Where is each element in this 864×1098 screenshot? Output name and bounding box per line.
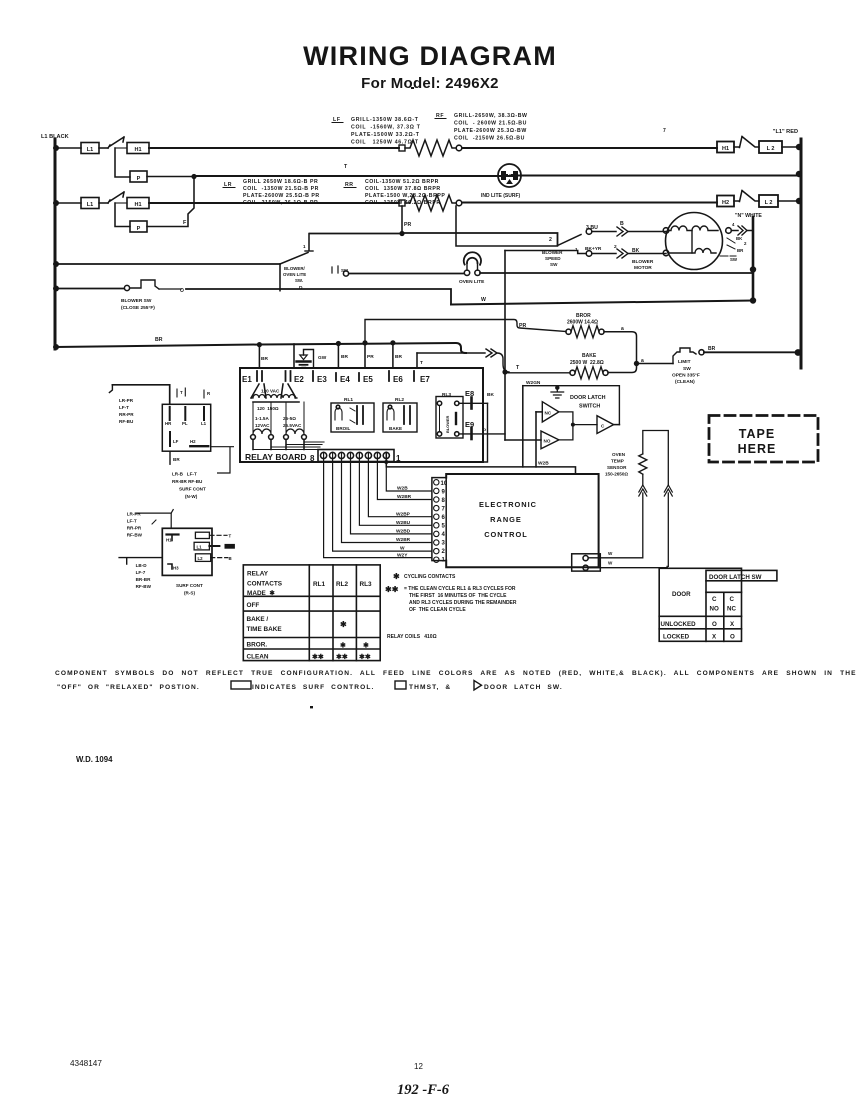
svg-text:RL1: RL1	[344, 397, 353, 403]
svg-text:LF-T: LF-T	[119, 405, 129, 410]
left supply bus L1 BLACK	[41, 134, 69, 349]
svg-text:COIL -1560W, 37.3Ω T: COIL -1560W, 37.3Ω T	[351, 125, 421, 131]
surface control 2 feed wire	[136, 513, 172, 528]
relay box H1 (row2 left)	[127, 198, 149, 209]
svg-text:BR: BR	[708, 346, 716, 352]
svg-text:SW.: SW.	[295, 278, 303, 283]
ERC terminal block	[432, 478, 448, 564]
wire blower thermal switch line	[55, 288, 124, 290]
svg-text:O: O	[730, 633, 735, 640]
svg-text:For Model: 2496X2: For Model: 2496X2	[361, 75, 499, 92]
wire sensor bottom lead	[642, 474, 644, 485]
svg-text:BLOWER: BLOWER	[632, 259, 654, 265]
svg-text:OVEN: OVEN	[612, 452, 626, 457]
wire E6 drop	[392, 343, 394, 368]
note symbol: thmst box	[395, 681, 406, 689]
relay box L2 (row1 right)	[759, 141, 782, 153]
blower thermal switch CLOSE 255F	[121, 280, 184, 311]
wire oven lite line	[349, 270, 753, 274]
secondary coil 26.5VAC	[284, 402, 307, 450]
wire P drop row1	[115, 148, 130, 177]
relay box H1 (row1 left)	[127, 143, 149, 154]
svg-text:L1 BLACK: L1 BLACK	[41, 134, 69, 140]
svg-text:RR-BR RF-BU: RR-BR RF-BU	[172, 479, 203, 484]
svg-text:= THE CLEAN CYCLE RL1 & RL3 CY: = THE CLEAN CYCLE RL1 & RL3 CYCLES FOR	[404, 586, 516, 592]
svg-text:L 2: L 2	[765, 200, 773, 206]
wire	[99, 202, 108, 204]
note symbol: door latch triangle	[474, 681, 482, 691]
load list LF	[332, 117, 421, 146]
svg-text:10: 10	[441, 481, 448, 487]
svg-text:(R-S): (R-S)	[184, 591, 195, 596]
svg-text:LF-T: LF-T	[127, 519, 137, 524]
svg-text:✱✱: ✱✱	[385, 585, 399, 594]
svg-text:COIL-1350W 51.2Ω BRPR: COIL-1350W 51.2Ω BRPR	[365, 179, 439, 185]
node P junction	[191, 174, 196, 179]
svg-text:W2BD: W2BD	[396, 529, 411, 535]
svg-text:HERE: HERE	[738, 442, 777, 456]
svg-text:DOOR: DOOR	[672, 591, 691, 598]
resistor bake element	[570, 370, 575, 375]
svg-text:P: P	[137, 176, 141, 182]
svg-text:✱✱: ✱✱	[336, 653, 348, 661]
surface list labels 2	[127, 512, 143, 538]
svg-text:RELAY COILS 410Ω: RELAY COILS 410Ω	[387, 634, 437, 640]
svg-text:BROR.: BROR.	[247, 642, 268, 649]
svg-text:GRILL 2650W 18.6Ω-B PR: GRILL 2650W 18.6Ω-B PR	[243, 179, 318, 185]
electronic range control box	[446, 474, 598, 567]
wire surf cont 1 to label	[211, 447, 234, 473]
svg-text:B: B	[620, 221, 624, 227]
surf cont 2 caption	[176, 583, 203, 596]
svg-text:L 2: L 2	[767, 146, 775, 152]
node	[399, 231, 404, 236]
svg-text:LR-PR: LR-PR	[127, 512, 142, 517]
svg-text:DOOR LATCH SW: DOOR LATCH SW	[709, 574, 762, 581]
wire row1 right	[462, 147, 717, 149]
wire P junction drop with jog to P2	[147, 177, 194, 227]
wire E5 riser and broil feed	[365, 320, 566, 343]
svg-text:1: 1	[303, 244, 306, 249]
title WIRING DIAGRAM	[303, 41, 557, 92]
svg-text:LF: LF	[173, 439, 179, 444]
surface control box 1	[162, 388, 211, 451]
svg-text:AND RL3 CYCLES DURING THE REMA: AND RL3 CYCLES DURING THE REMAINDER	[409, 600, 517, 606]
svg-text:5: 5	[442, 524, 446, 530]
wire E7 drop	[416, 353, 418, 368]
svg-text:2: 2	[744, 241, 747, 246]
svg-text:NO: NO	[544, 439, 551, 444]
wire W2GN riser	[522, 386, 524, 467]
svg-text:PR: PR	[367, 354, 374, 360]
svg-text:RANGE: RANGE	[490, 515, 522, 524]
relay contacts table	[243, 565, 380, 661]
svg-text:C: C	[712, 596, 717, 603]
mid-right neutral bus N WHITE	[735, 213, 762, 302]
svg-text:GRILL-2650W, 38.3Ω-BW: GRILL-2650W, 38.3Ω-BW	[454, 113, 528, 119]
svg-text:TEMP: TEMP	[611, 459, 624, 464]
switch (row1 right)	[734, 137, 759, 148]
svg-text:L1: L1	[87, 147, 93, 153]
svg-text:COIL - 2600W 21.5Ω-BU: COIL - 2600W 21.5Ω-BU	[454, 121, 527, 127]
svg-text:BAKE: BAKE	[582, 353, 597, 359]
wire speed sw low stub to RL3 feed vertical	[505, 251, 586, 254]
surface control box 2	[162, 528, 235, 575]
svg-text:✱: ✱	[393, 572, 400, 581]
load list LR	[223, 179, 320, 206]
surface cont 1 destination labels	[172, 472, 206, 500]
svg-text:L1: L1	[197, 545, 203, 550]
svg-text:LIMIT: LIMIT	[678, 359, 691, 365]
wire ERC bottom to door latch table	[588, 567, 667, 570]
svg-text:BLOWER SW: BLOWER SW	[121, 298, 152, 304]
wire bake to junction	[608, 364, 637, 373]
svg-text:COMPONENT SYMBOLS DO NOT REFLE: COMPONENT SYMBOLS DO NOT REFLECT TRUE CO…	[55, 670, 857, 677]
svg-text:L1: L1	[201, 421, 207, 426]
svg-text:COIL 1350W 37.8Ω BRPR: COIL 1350W 37.8Ω BRPR	[365, 186, 441, 192]
connector arrows	[639, 485, 647, 496]
svg-text:E4: E4	[340, 375, 350, 384]
tick	[152, 520, 156, 524]
svg-text:O: O	[712, 621, 717, 628]
svg-text:NC: NC	[727, 606, 736, 613]
svg-text:RL2: RL2	[336, 581, 349, 588]
wire E8 riser down to ERC feed	[420, 403, 488, 462]
svg-text:6: 6	[442, 515, 446, 521]
svg-text:E8: E8	[465, 389, 474, 398]
svg-text:BK: BK	[487, 392, 494, 398]
svg-text:H1: H1	[134, 202, 141, 208]
svg-text:"OFF" OR "RELAXED" POSTION.: "OFF" OR "RELAXED" POSTION.	[57, 684, 200, 691]
svg-text:SW: SW	[730, 257, 738, 262]
relay box P (row2)	[130, 221, 147, 232]
wire surf 2 left stub	[119, 558, 162, 564]
svg-text:T: T	[229, 534, 232, 539]
svg-text:4: 4	[442, 532, 446, 538]
svg-text:W2BP: W2BP	[396, 512, 411, 518]
svg-text:W: W	[608, 551, 613, 556]
svg-text:SENSOR: SENSOR	[607, 465, 627, 470]
svg-text:BR: BR	[737, 248, 744, 253]
svg-text:BR: BR	[155, 337, 163, 343]
svg-text:2500 W 22.8Ω: 2500 W 22.8Ω	[570, 360, 604, 366]
svg-text:"L1" RED: "L1" RED	[773, 129, 798, 135]
oven temp sensor resistor	[639, 454, 647, 474]
note symbol: surf control box	[231, 681, 251, 689]
svg-text:3: 3	[442, 541, 446, 547]
svg-text:TAPE: TAPE	[739, 427, 775, 441]
wire E5 drop	[364, 343, 366, 368]
svg-text:✱✱: ✱✱	[312, 653, 324, 661]
svg-text:✱: ✱	[340, 620, 347, 629]
svg-text:BR: BR	[173, 457, 180, 462]
arrow stub	[109, 385, 112, 393]
svg-text:MADE ✱: MADE ✱	[247, 590, 275, 597]
wire P drop row2	[115, 203, 130, 227]
connector chevrons	[617, 249, 628, 258]
svg-text:RELAY: RELAY	[247, 571, 269, 578]
svg-text:(N-W): (N-W)	[185, 494, 198, 499]
wire feed line to blower speed switch pivot	[310, 233, 558, 245]
svg-text:7: 7	[442, 507, 446, 513]
TAPE HERE box	[709, 416, 818, 463]
node bake junction	[502, 369, 507, 374]
wire W line to neutral bus	[451, 301, 753, 305]
svg-text:H3: H3	[173, 566, 179, 571]
svg-text:PLATE-1500 W,28.2Ω-BRPP: PLATE-1500 W,28.2Ω-BRPP	[365, 193, 445, 199]
node limit junction	[634, 361, 639, 366]
svg-text:RR-PR: RR-PR	[127, 526, 142, 531]
svg-text:2: 2	[549, 237, 552, 243]
switch (row3 right)	[734, 191, 759, 202]
wire P to junction node	[147, 176, 194, 178]
relay board outline	[240, 368, 483, 462]
surface list labels bottom-left	[136, 563, 152, 589]
svg-text:H2: H2	[190, 439, 196, 444]
relay box L1 (row1 left)	[81, 143, 99, 154]
wire E4 drop	[337, 344, 339, 369]
svg-text:RL1: RL1	[313, 581, 326, 588]
svg-text:BLOWER/: BLOWER/	[284, 266, 306, 271]
svg-text:150-2650Ω: 150-2650Ω	[605, 472, 628, 477]
svg-text:RF-BW: RF-BW	[136, 584, 152, 589]
svg-text:25-5Ω: 25-5Ω	[283, 416, 296, 421]
svg-text:C: C	[730, 596, 735, 603]
svg-text:1: 1	[396, 454, 401, 463]
svg-text:BR-BR: BR-BR	[136, 577, 151, 582]
svg-text:W.D. 1094: W.D. 1094	[76, 755, 113, 764]
svg-text:SW: SW	[550, 262, 558, 267]
svg-text:E9: E9	[465, 420, 474, 429]
square terminal	[399, 145, 405, 151]
svg-text:LF-7: LF-7	[136, 570, 146, 575]
relay box P (row1)	[130, 171, 147, 182]
svg-text:✱: ✱	[340, 642, 346, 650]
wire speed sw hi to motor	[592, 231, 616, 233]
terminal pin marks	[257, 371, 414, 381]
chassis ground symbol GW	[297, 350, 327, 369]
terminal strip 8..1	[310, 450, 401, 464]
indicator lamp IND LITE (SURF)	[481, 164, 521, 199]
svg-text:RELAY BOARD: RELAY BOARD	[245, 452, 307, 462]
svg-text:BROR: BROR	[576, 313, 591, 319]
svg-text:COIL 1250W 46.7Ω-T: COIL 1250W 46.7Ω-T	[351, 140, 419, 146]
svg-text:R: R	[207, 391, 211, 396]
wire to right bus	[778, 200, 799, 202]
wire BR main feed line	[55, 343, 466, 353]
svg-text:CYCLING CONTACTS: CYCLING CONTACTS	[404, 574, 456, 580]
blower motor	[663, 213, 731, 270]
wire sensor leads down	[588, 493, 642, 558]
door latch sw table	[659, 568, 777, 641]
svg-text:OPEN 335°F: OPEN 335°F	[672, 373, 700, 379]
svg-text:T: T	[420, 360, 423, 366]
svg-text:DOOR LATCH: DOOR LATCH	[570, 395, 606, 401]
svg-text:THE FIRST 16 MINUTES OF THE: THE FIRST 16 MINUTES OF THE CYCLE	[409, 593, 507, 599]
svg-text:B: B	[229, 556, 232, 561]
blower/oven-lite switch	[280, 234, 313, 284]
contact C	[559, 412, 619, 440]
row1 wire left: bus to relay L1	[55, 147, 81, 149]
load list RF	[435, 113, 528, 142]
svg-text:COIL -2150W 26.5Ω-BU: COIL -2150W 26.5Ω-BU	[454, 136, 525, 142]
harness wire labels	[396, 486, 412, 559]
svg-text:H1: H1	[134, 147, 141, 153]
svg-text:12VAC: 12VAC	[255, 423, 270, 428]
svg-text:OVEN LITE: OVEN LITE	[283, 272, 306, 277]
svg-text:T: T	[344, 164, 348, 170]
svg-text:X: X	[730, 621, 735, 628]
svg-text:"N" WHITE: "N" WHITE	[735, 213, 762, 219]
wire row2 long run to right bus	[194, 175, 799, 178]
svg-text:E1: E1	[242, 375, 252, 384]
wire harness strip to ERC terminals	[324, 452, 431, 557]
svg-text:W2BR: W2BR	[396, 537, 411, 543]
svg-text:2: 2	[442, 549, 446, 555]
svg-text:BROIL: BROIL	[336, 426, 350, 431]
svg-text:L2: L2	[198, 556, 204, 561]
switch (row2 left)	[108, 192, 127, 203]
svg-text:GRILL-1350W 38.6Ω-T: GRILL-1350W 38.6Ω-T	[351, 117, 419, 123]
svg-text:MOTOR: MOTOR	[634, 265, 652, 271]
wire broil to junction	[604, 332, 637, 364]
relay RL3 BLOWER	[436, 392, 463, 438]
svg-text:RF-BU: RF-BU	[119, 419, 134, 424]
wire bake feed	[505, 372, 570, 374]
svg-text:O: O	[180, 288, 184, 294]
bottom notes	[55, 670, 857, 691]
oven lite lamp	[459, 252, 485, 285]
door latch switch assembly	[523, 386, 620, 425]
svg-text:E2: E2	[294, 375, 304, 384]
contact NO	[505, 431, 559, 449]
svg-text:COIL 1250W 46.2Ω BRPR: COIL 1250W 46.2Ω BRPR	[365, 200, 441, 206]
svg-text:W: W	[481, 297, 486, 303]
svg-text:2600W 14.4Ω: 2600W 14.4Ω	[567, 320, 598, 326]
svg-text:8: 8	[442, 498, 446, 504]
svg-text:12: 12	[414, 1062, 423, 1071]
svg-text:HR: HR	[165, 421, 172, 426]
svg-text:E5: E5	[363, 375, 373, 384]
svg-text:W: W	[608, 561, 613, 566]
wire oven-lite switch feed from bus	[55, 263, 280, 265]
svg-text:SURF CONT: SURF CONT	[176, 583, 203, 588]
limit switch OPEN 335F	[672, 346, 716, 385]
svg-text:BR: BR	[341, 354, 348, 360]
relay box H1 (row1 right)	[717, 142, 734, 153]
wire junction to limit switch	[637, 363, 674, 365]
svg-text:OFF: OFF	[247, 602, 260, 609]
svg-text:RL2: RL2	[395, 397, 404, 403]
oven temp sensor text	[605, 452, 628, 477]
svg-text:LOCKED: LOCKED	[663, 633, 690, 640]
svg-text:DOOR LATCH SW.: DOOR LATCH SW.	[484, 684, 563, 691]
wire coil bus to strip	[253, 442, 324, 450]
circle terminal	[456, 200, 462, 206]
svg-text:CLEAN: CLEAN	[247, 654, 269, 661]
svg-text:1-1.5A: 1-1.5A	[255, 416, 269, 421]
svg-text:192 -F-6: 192 -F-6	[397, 1082, 450, 1098]
svg-text:W2Y: W2Y	[397, 552, 408, 558]
svg-text:UNLOCKED: UNLOCKED	[661, 621, 697, 628]
svg-text:RR-PR: RR-PR	[119, 412, 134, 417]
svg-text:OVEN LITE: OVEN LITE	[459, 279, 485, 285]
svg-text:E7: E7	[420, 375, 430, 384]
wire E1 drop	[258, 345, 260, 368]
wire	[99, 147, 108, 149]
wire S-jog down to bake line	[497, 353, 509, 372]
svg-text:T: T	[180, 390, 183, 395]
cycling contacts legend	[385, 572, 517, 640]
resistor broil element	[566, 329, 571, 334]
wire E2 drop	[293, 344, 295, 368]
svg-text:IND LITE (SURF): IND LITE (SURF)	[481, 193, 520, 199]
svg-text:BAKE: BAKE	[389, 426, 402, 431]
connector chevrons	[617, 227, 628, 236]
wire limit to right bus	[704, 351, 798, 353]
svg-text:LR-PR: LR-PR	[119, 398, 134, 403]
motor lead to neutral bus with plug	[732, 230, 739, 232]
connector chevron	[486, 349, 497, 357]
svg-text:INDICATES SURF CONTROL.: INDICATES SURF CONTROL.	[252, 684, 374, 691]
row2 wire left: bus to relay L1	[55, 202, 81, 204]
wire row3 right	[462, 202, 717, 204]
svg-text:C: C	[601, 423, 605, 428]
transformer ratings text	[255, 406, 302, 428]
svg-text:LB-D: LB-D	[136, 563, 148, 568]
svg-text:L1: L1	[87, 202, 93, 208]
svg-text:W2B: W2B	[397, 486, 408, 492]
ERC sensor connector	[572, 551, 613, 571]
circle terminal	[456, 145, 462, 151]
oven lite contact and terminal	[332, 266, 349, 276]
svg-text:✱✱: ✱✱	[359, 653, 371, 661]
svg-text:BR: BR	[261, 356, 268, 362]
wire relay board T feed	[417, 352, 485, 354]
wire E9 line to blower feed vertical	[459, 433, 505, 435]
resistor RR surface element (row3)	[405, 195, 456, 211]
svg-text:D: D	[299, 285, 303, 291]
svg-text:ELECTRONIC: ELECTRONIC	[479, 500, 537, 509]
svg-text:E3: E3	[317, 375, 327, 384]
svg-text:RL3: RL3	[360, 581, 373, 588]
svg-text:COIL 2150W, 26.1Ω-B PR: COIL 2150W, 26.1Ω-B PR	[243, 200, 318, 206]
svg-text:PLATE-2600W 25.5Ω-B PR: PLATE-2600W 25.5Ω-B PR	[243, 193, 320, 199]
svg-text:X: X	[712, 633, 717, 640]
svg-text:8: 8	[310, 454, 315, 463]
wire: row3 resistor left terminal drop to feed line	[401, 206, 403, 234]
relay box L2 (row3 right)	[759, 195, 778, 207]
switch (row1 left)	[108, 137, 127, 148]
svg-text:PR: PR	[519, 323, 526, 329]
svg-text:SPEED: SPEED	[545, 256, 561, 261]
svg-text:W2BU: W2BU	[396, 520, 411, 526]
node	[384, 460, 388, 464]
wire E8 line	[459, 402, 488, 404]
svg-text:SURF CONT: SURF CONT	[179, 487, 206, 492]
svg-text:CONTACTS: CONTACTS	[247, 581, 283, 588]
right supply bus L1 RED	[773, 129, 801, 368]
wire: row3 resistor right terminal drop	[456, 206, 558, 246]
load list RR	[344, 179, 445, 206]
resistor LF surface element (row1)	[405, 140, 456, 156]
wire row2 to heater resistor	[149, 202, 399, 204]
svg-text:PL: PL	[182, 421, 188, 426]
svg-text:SW: SW	[683, 366, 691, 372]
svg-text:RF-BW: RF-BW	[127, 533, 143, 538]
wire NC drop	[535, 412, 537, 467]
transformer primary 120 VAC	[251, 384, 299, 402]
